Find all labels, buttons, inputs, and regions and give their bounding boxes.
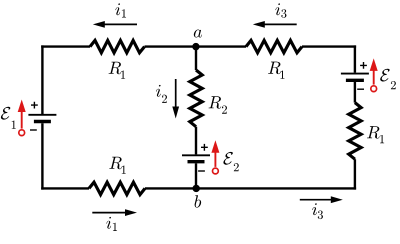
label E2 right (script E with subscript 2) [380, 69, 389, 82]
current arrow i1 top (leftward) [103, 23, 137, 25]
label i3 top [275, 3, 280, 15]
label R2 [209, 96, 222, 108]
resistor R1 bottom zigzag [89, 182, 145, 194]
battery E2 middle minus sign [198, 170, 205, 172]
battery E2 right plus sign [360, 62, 367, 69]
label node a [194, 30, 202, 38]
emf arrow E2 middle (red, upward with circle tail) [213, 168, 219, 174]
wire bottom-left (corner to R1) [41, 187, 89, 189]
wire top-left (E1 to R1) [41, 45, 90, 47]
emf arrow E2 right (red, upward with circle tail) [371, 86, 377, 92]
label node b [195, 195, 202, 207]
wire right middle (battery E2 to R1) [354, 82, 356, 103]
wire middle (R2 to battery E2) [195, 127, 197, 155]
label R1 bottom [109, 157, 122, 169]
wire right upper (corner to battery E2) [354, 45, 356, 72]
current arrow i2 (downward) [175, 79, 177, 109]
label i1 bottom [106, 217, 111, 229]
wire bottom-middle (R1 to node b) [145, 187, 196, 189]
battery E2 right positive plate [341, 73, 369, 75]
label R1 right [367, 126, 380, 138]
resistor R1 top-right zigzag [246, 40, 302, 52]
node b junction dot [193, 185, 200, 192]
resistor R1 right zigzag [349, 103, 361, 160]
wire top-right (R1 to corner) [302, 45, 356, 47]
wire middle lower (battery E2 to node b) [195, 163, 197, 188]
wire top-middle (R1 to node a to R1) [145, 45, 247, 47]
battery E1 minus sign [30, 129, 37, 131]
battery E1 plus sign [31, 102, 38, 109]
wire left lower (battery E1 to corner) [41, 123, 43, 189]
current arrow i3 top (leftward) [263, 23, 297, 25]
wire middle upper (node a to R2) [195, 47, 197, 70]
emf arrow E1 (red, upward with circle tail) [19, 130, 25, 136]
resistor R1 top-left zigzag [90, 40, 145, 52]
battery E2 middle positive plate [182, 154, 210, 156]
label i3 bottom [312, 203, 317, 215]
battery E2 middle plus sign [201, 144, 208, 151]
wire bottom-right (node b to corner) [196, 187, 356, 189]
label i2 [156, 85, 161, 97]
current arrow i3 bottom (rightward) [300, 199, 333, 201]
battery E1 negative plate [34, 120, 51, 123]
battery E1 positive plate [28, 114, 56, 116]
current arrow i1 bottom (rightward) [92, 212, 127, 214]
battery E2 right negative plate [346, 79, 364, 82]
label E1 (script E with subscript 1) [1, 107, 10, 120]
wire left upper (corner to battery E1) [41, 45, 43, 114]
resistor R2 zigzag [190, 70, 202, 127]
label R1 top-left [109, 62, 122, 74]
battery E2 middle negative plate [188, 160, 205, 163]
wire right lower (R1 to corner) [354, 159, 356, 189]
node a junction dot [192, 43, 199, 50]
label i1 top [115, 3, 120, 15]
label R1 top-right [268, 62, 281, 74]
label E2 middle (script E with subscript 2) [223, 152, 232, 165]
battery E2 right minus sign [357, 88, 364, 90]
